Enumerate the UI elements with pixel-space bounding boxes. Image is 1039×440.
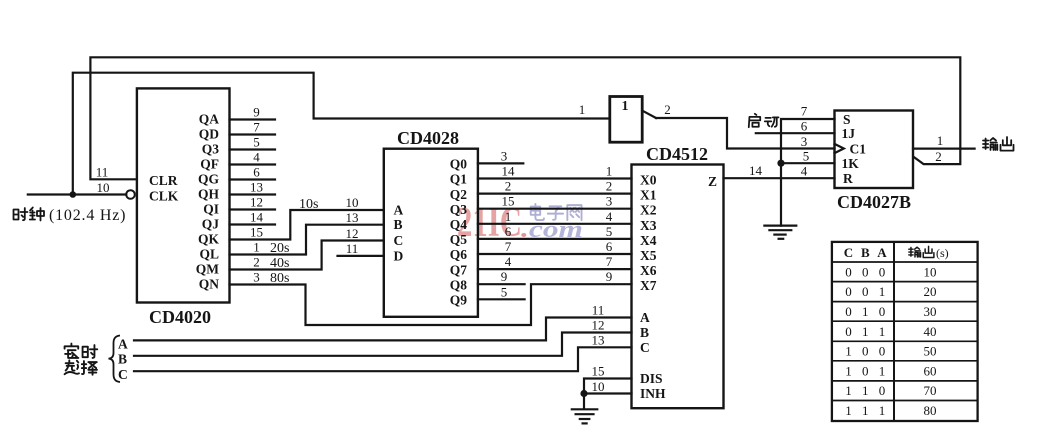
svg-text:12: 12: [250, 195, 263, 210]
svg-text:13: 13: [250, 180, 263, 195]
svg-text:QF: QF: [200, 157, 219, 172]
svg-text:QG: QG: [198, 172, 220, 187]
svg-text:10: 10: [592, 379, 605, 394]
svg-text:40s: 40s: [270, 256, 289, 271]
svg-text:Q0: Q0: [450, 157, 468, 172]
svg-text:X0: X0: [640, 173, 657, 188]
wire: CD4020 QH pin 13 stub: [230, 193, 276, 195]
wire: CD4020 QD pin 7 stub: [230, 133, 276, 135]
svg-text:3: 3: [801, 134, 808, 149]
svg-text:13: 13: [592, 332, 605, 347]
IC U3 CD4512 8-channel data selector body: [632, 165, 724, 409]
svg-text:X2: X2: [640, 203, 657, 218]
ground symbol under CD4027B input side: [764, 226, 796, 239]
output label: [983, 137, 1014, 151]
CD4027B clock input triangle on C1: [835, 144, 844, 153]
svg-text:5: 5: [606, 224, 613, 239]
IC U4 CD4027B JK flip-flop body: [835, 111, 914, 189]
start signal label: [749, 114, 779, 127]
svg-text:4: 4: [505, 254, 512, 269]
svg-text:CLK: CLK: [149, 189, 179, 204]
wire: CD4020 QG pin 6 stub: [230, 178, 276, 180]
svg-text:0: 0: [862, 265, 869, 280]
wire: CD4028 D pin 11 stub: [338, 255, 384, 257]
wire: CD4027B Q output pin 1 to output node: [913, 148, 975, 150]
svg-text:X1: X1: [640, 188, 657, 203]
svg-text:X6: X6: [640, 263, 657, 278]
CD4020 CLK inverting bubble: [126, 190, 135, 199]
svg-text:7: 7: [505, 239, 512, 254]
svg-text:1: 1: [505, 209, 512, 224]
wire: CD4020 QF pin 4 stub: [230, 163, 276, 165]
svg-text:1: 1: [845, 383, 852, 398]
svg-text:QK: QK: [198, 232, 220, 247]
svg-text:2: 2: [505, 179, 512, 194]
svg-text:Q3: Q3: [202, 142, 220, 157]
svg-text:4: 4: [606, 209, 613, 224]
ground symbol under CD4512: [572, 409, 598, 423]
svg-text:11: 11: [346, 241, 359, 256]
svg-text:C1: C1: [850, 142, 867, 157]
IC U1 CD4020 binary counter body: [137, 88, 230, 302]
svg-text:40: 40: [924, 324, 937, 339]
svg-text:80s: 80s: [270, 271, 289, 286]
svg-text:1: 1: [879, 324, 886, 339]
svg-text:INH: INH: [640, 386, 666, 401]
wire: CD4027B S pin 7 and 1K pin 5 to ground: [781, 119, 835, 226]
wire: CD4512 INH pin 10 to ground: [584, 394, 632, 409]
svg-text:10: 10: [346, 195, 359, 210]
svg-text:14: 14: [502, 164, 516, 179]
CD4020 output pin name labels QA-QN: [196, 112, 220, 292]
svg-text:C: C: [394, 233, 404, 248]
svg-text:Q6: Q6: [450, 247, 468, 262]
svg-text:X3: X3: [640, 218, 657, 233]
clock source label: [14, 208, 45, 221]
svg-text:0: 0: [845, 324, 852, 339]
svg-text:6: 6: [606, 239, 613, 254]
svg-text:6: 6: [801, 119, 808, 134]
svg-text:10s: 10s: [299, 197, 318, 212]
svg-text:A: A: [118, 336, 128, 351]
svg-text:B: B: [118, 352, 127, 367]
svg-text:0: 0: [879, 344, 886, 359]
svg-text:15: 15: [592, 364, 605, 379]
wire: CD4028 Q6 pin 7 to CD4512 X5 pin 6: [478, 253, 632, 255]
svg-text:6: 6: [253, 165, 260, 180]
svg-text:1: 1: [862, 403, 869, 418]
svg-text:QJ: QJ: [202, 217, 220, 232]
svg-text:3: 3: [501, 148, 508, 163]
svg-text:50: 50: [924, 344, 937, 359]
svg-text:12: 12: [346, 226, 359, 241]
svg-text:1: 1: [862, 383, 869, 398]
svg-text:1: 1: [845, 363, 852, 378]
svg-text:A: A: [394, 203, 404, 218]
CD4512 select pin name labels A,B,C: [640, 310, 650, 355]
svg-text:0: 0: [879, 265, 886, 280]
svg-text:0: 0: [845, 265, 852, 280]
wire: feedback from CD4027B output node to CD4020 CLR pin 11: [90, 57, 960, 179]
svg-text:9: 9: [501, 269, 508, 284]
wire: CD4028 Q2 pin 2 to CD4512 X1 pin 2: [478, 193, 632, 195]
svg-text:R: R: [843, 171, 853, 186]
wire: CD4027B Qbar pin 2 diagonal and jog to output node: [913, 149, 960, 165]
svg-text:C: C: [844, 245, 853, 260]
svg-text:CD4028: CD4028: [397, 128, 459, 148]
svg-text:0: 0: [879, 304, 886, 319]
svg-text:10: 10: [924, 265, 937, 280]
svg-text:A: A: [640, 310, 650, 325]
inverter gate G1 output negation slash: [642, 111, 656, 118]
wire: CD4020 QM pin 2 to CD4028 C pin 12 (40s): [230, 241, 384, 270]
wire: CD4028 Q1 pin 14 to CD4512 X0 pin 1: [478, 177, 632, 179]
svg-text:1: 1: [879, 403, 886, 418]
svg-text:1: 1: [622, 99, 629, 114]
svg-text:A: A: [877, 245, 887, 260]
svg-text:4: 4: [801, 164, 808, 179]
svg-text:0: 0: [862, 363, 869, 378]
wire: CD4020 QL pin 1 to CD4028 B pin 13 (20s): [230, 225, 384, 255]
wire: start signal to CD4027B 1J pin 6: [756, 132, 835, 134]
svg-text:1: 1: [879, 363, 886, 378]
svg-text:Q8: Q8: [450, 277, 468, 292]
svg-text:QA: QA: [199, 112, 220, 127]
svg-text:1: 1: [253, 240, 260, 255]
CD4028 output pin name labels Q0-Q9: [450, 157, 468, 308]
svg-text:QL: QL: [199, 247, 219, 262]
timing select brace: [109, 336, 121, 383]
svg-text:Q9: Q9: [450, 293, 468, 308]
svg-text:13: 13: [346, 210, 359, 225]
watermark text dianziwang: [531, 204, 582, 220]
select input labels A B C: [118, 336, 128, 382]
CD4028 input pin name labels A,B,C,D: [394, 203, 404, 264]
svg-text:12: 12: [592, 318, 605, 333]
svg-text:S: S: [843, 112, 851, 127]
table header C B A: [844, 245, 888, 260]
junction at 1K/ground vertical: [777, 160, 784, 167]
svg-text:CD4027B: CD4027B: [837, 192, 911, 212]
svg-text:30: 30: [924, 304, 937, 319]
svg-text:0: 0: [845, 284, 852, 299]
svg-text:(102.4 Hz): (102.4 Hz): [49, 207, 126, 224]
watermark logo 21IC: [457, 200, 522, 246]
svg-text:QN: QN: [199, 277, 220, 292]
timing truth table frame: [832, 242, 978, 421]
svg-text:3: 3: [253, 270, 260, 285]
svg-text:11: 11: [96, 165, 109, 180]
svg-text:10: 10: [97, 180, 110, 195]
wire: CD4020 QJ pin 14 stub: [230, 223, 276, 225]
svg-text:(s): (s): [936, 246, 949, 260]
svg-text:0: 0: [862, 284, 869, 299]
inverter gate G1 (IEC symbol 1) body: [610, 97, 642, 143]
wire: timing select C to CD4512 C pin 13: [134, 347, 632, 371]
svg-text:0: 0: [879, 383, 886, 398]
svg-text:5: 5: [253, 135, 260, 150]
wire: CD4028 Q0 pin 3 stub: [478, 162, 523, 164]
table column divider: [893, 242, 895, 421]
svg-text:CLR: CLR: [149, 173, 178, 188]
wire: CD4020 QA pin 9 stub: [230, 118, 276, 120]
svg-text:1J: 1J: [842, 126, 856, 141]
svg-text:X7: X7: [640, 278, 657, 293]
CD4020 pin numbers 9,7,5,4,6,13,12,14,15,1,2,3: [250, 105, 264, 285]
svg-text:B: B: [394, 217, 403, 232]
svg-text:C: C: [640, 340, 650, 355]
svg-text:1: 1: [579, 102, 586, 117]
svg-text:QI: QI: [203, 202, 219, 217]
table header output(s): [909, 246, 934, 257]
wire: CD4028 Q7 pin 4 to CD4512 X6 pin 7: [478, 268, 632, 270]
svg-text:2: 2: [664, 102, 671, 117]
svg-text:20s: 20s: [270, 241, 289, 256]
svg-text:D: D: [394, 248, 404, 263]
svg-text:0: 0: [845, 304, 852, 319]
svg-text:2: 2: [253, 255, 260, 270]
wire: CD4020 QK pin 15 to CD4028 A pin 10 (10s): [230, 210, 384, 240]
wire: clock input line to CLK pin 10: [28, 193, 126, 195]
svg-text:B: B: [640, 325, 649, 340]
wire: CD4512 DIS pin 15 to ground: [584, 379, 632, 394]
svg-text:14: 14: [749, 163, 763, 178]
svg-text:1: 1: [937, 133, 944, 148]
svg-text:1: 1: [862, 304, 869, 319]
svg-text:X4: X4: [640, 233, 657, 248]
svg-text:1: 1: [862, 324, 869, 339]
svg-text:15: 15: [250, 225, 263, 240]
svg-text:20: 20: [924, 284, 937, 299]
wire: CD4512 Z pin 14 to CD4027B R pin 4: [724, 177, 835, 179]
timing select label: [65, 344, 98, 375]
svg-text:5: 5: [501, 284, 508, 299]
svg-text:Q1: Q1: [450, 172, 468, 187]
svg-text:7: 7: [801, 104, 808, 119]
table data rows: [845, 265, 936, 419]
wire: CD4020 QI pin 12 stub: [230, 208, 276, 210]
wire: CD4020 QN pin 3 (80s) under CD4028 to CD4512 X7 pin 9: [230, 284, 632, 325]
svg-text:15: 15: [502, 194, 515, 209]
wire: clock branch up and over to inverter input pin 1: [73, 73, 610, 195]
svg-text:1: 1: [879, 284, 886, 299]
CD4512 input pin name labels X0-X7: [640, 173, 657, 294]
wire: CD4020 Q3 pin 5 stub: [230, 148, 276, 150]
svg-text:14: 14: [250, 210, 264, 225]
IC U2 CD4028 BCD decoder body: [384, 149, 478, 317]
svg-text:1K: 1K: [842, 156, 860, 171]
wire: CD4028 Q8 pin 9 stub: [478, 283, 525, 285]
svg-text:9: 9: [606, 269, 613, 284]
svg-text:CD4512: CD4512: [646, 144, 708, 164]
svg-text:6: 6: [505, 224, 512, 239]
svg-text:0: 0: [862, 344, 869, 359]
wire: CD4028 Q9 pin 5 stub: [478, 298, 525, 300]
svg-text:Q7: Q7: [450, 262, 468, 277]
svg-text:Q2: Q2: [450, 187, 468, 202]
svg-text:DIS: DIS: [640, 371, 663, 386]
svg-text:1: 1: [606, 164, 613, 179]
svg-text:60: 60: [924, 363, 937, 378]
wire: timing select B to CD4512 B pin 12: [134, 333, 632, 356]
svg-text:C: C: [118, 367, 128, 382]
junction at DIS/INH tie: [580, 390, 587, 397]
svg-text:Q4: Q4: [450, 217, 468, 232]
table row lines: [832, 262, 978, 401]
junction on clock line: [70, 191, 77, 198]
svg-text:2: 2: [935, 149, 942, 164]
svg-text:Q5: Q5: [450, 232, 468, 247]
wire: CD4028 Q3 pin 15 to CD4512 X2 pin 3: [478, 208, 632, 210]
svg-text:7: 7: [253, 120, 260, 135]
svg-text:3: 3: [606, 194, 613, 209]
wire: CD4028 Q4 pin 1 to CD4512 X3 pin 4: [478, 223, 632, 225]
svg-text:70: 70: [924, 383, 937, 398]
svg-text:Q3: Q3: [450, 202, 468, 217]
svg-text:Z: Z: [708, 174, 717, 189]
svg-text:5: 5: [803, 149, 810, 164]
svg-text:QM: QM: [196, 262, 220, 277]
svg-text:7: 7: [606, 254, 613, 269]
svg-text:4: 4: [253, 150, 260, 165]
wire: CD4028 Q5 pin 6 to CD4512 X4 pin 5: [478, 238, 632, 240]
svg-text:9: 9: [253, 105, 260, 120]
svg-text:B: B: [861, 245, 870, 260]
svg-text:80: 80: [924, 403, 937, 418]
svg-text:1: 1: [845, 344, 852, 359]
svg-text:1: 1: [845, 403, 852, 418]
svg-text:QD: QD: [199, 127, 220, 142]
svg-text:CD4020: CD4020: [149, 307, 211, 327]
svg-text:11: 11: [592, 303, 605, 318]
svg-text:2: 2: [606, 179, 613, 194]
wire: inverter output pin 2 to CD4027B C1 pin 3: [656, 118, 835, 149]
svg-text:QH: QH: [198, 187, 220, 202]
svg-text:X5: X5: [640, 248, 657, 263]
wire: timing select A to CD4512 A pin 11: [134, 318, 632, 341]
